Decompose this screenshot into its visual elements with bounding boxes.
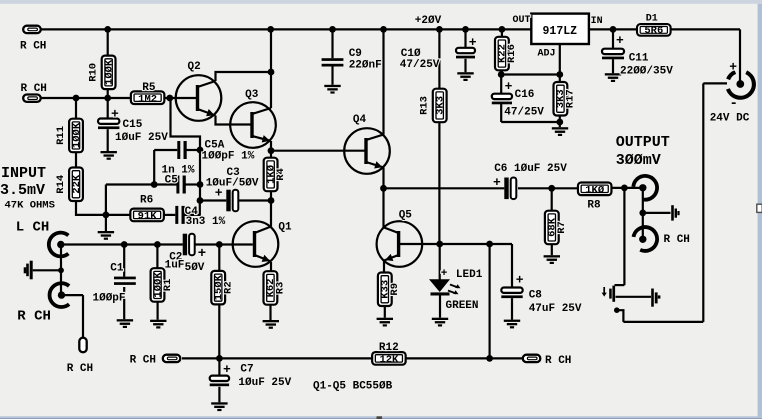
svg-text:Q5: Q5 [399,210,413,222]
svg-text:+2ØV: +2ØV [415,15,442,27]
svg-text:R6: R6 [140,195,153,207]
svg-text:47K OHMS: 47K OHMS [5,199,55,211]
svg-text:-: - [730,96,738,112]
svg-text:R3: R3 [275,282,287,295]
svg-text:+: + [516,273,524,288]
svg-text:917LZ: 917LZ [543,25,578,38]
svg-text:+: + [223,362,231,377]
svg-text:1ØuF 25V: 1ØuF 25V [115,132,168,144]
svg-text:R12: R12 [379,342,399,354]
svg-text:C9: C9 [349,48,362,60]
svg-text:1ØØpF: 1ØØpF [93,292,126,304]
svg-text:1ØØK: 1ØØK [71,122,83,148]
svg-text:+: + [493,175,501,190]
svg-text:R CH: R CH [664,234,690,246]
svg-text:5ØV: 5ØV [185,262,205,274]
svg-text:Q1-Q5 BC55ØB: Q1-Q5 BC55ØB [313,380,393,392]
svg-text:R16: R16 [506,44,518,63]
svg-text:D1: D1 [646,14,658,25]
svg-text:INPUT: INPUT [1,165,46,182]
svg-text:OUT: OUT [513,15,531,26]
svg-text:91K: 91K [138,211,158,223]
svg-text:R11: R11 [55,126,67,145]
svg-text:C16: C16 [515,89,535,101]
svg-text:R14: R14 [55,175,67,194]
svg-text:3.5mV: 3.5mV [0,182,45,199]
svg-text:LED1: LED1 [456,269,483,281]
svg-text:OUTPUT: OUTPUT [616,134,670,151]
svg-text:+: + [198,246,206,262]
svg-text:R8: R8 [587,200,601,212]
svg-text:+: + [111,107,119,122]
svg-text:47/25V: 47/25V [400,59,440,71]
svg-text:24V DC: 24V DC [710,112,750,124]
svg-text:+: + [505,79,513,94]
svg-text:C5: C5 [165,174,179,186]
svg-text:R CH: R CH [17,309,51,325]
svg-text:C15: C15 [123,119,143,131]
svg-text:Q2: Q2 [188,61,201,73]
svg-text:GREEN: GREEN [446,300,479,312]
svg-text:R9: R9 [389,283,401,296]
svg-text:R CH: R CH [545,355,571,367]
svg-text:1ØuF 25V: 1ØuF 25V [238,377,291,389]
svg-text:1ØØpF 1%: 1ØØpF 1% [202,151,255,163]
svg-text:IN: IN [591,16,603,27]
svg-text:R1: R1 [162,279,174,292]
svg-text:22ØnF: 22ØnF [349,59,382,71]
svg-text:1KØ: 1KØ [585,185,605,197]
svg-text:12K: 12K [379,354,399,366]
svg-text:47/25V: 47/25V [504,106,544,118]
svg-text:+: + [215,186,223,201]
svg-text:ADJ: ADJ [538,48,556,59]
svg-text:+: + [441,268,448,280]
svg-text:22K: 22K [71,174,83,194]
svg-text:R CH: R CH [67,363,93,375]
svg-text:+: + [616,33,624,48]
svg-text:R5: R5 [142,82,156,94]
svg-text:C8: C8 [529,290,543,302]
svg-text:R17: R17 [565,89,577,108]
svg-text:C1: C1 [110,263,124,275]
svg-text:R4: R4 [275,168,287,181]
svg-text:1M2: 1M2 [138,94,157,106]
svg-text:R7: R7 [556,221,568,234]
svg-text:R CH: R CH [130,355,156,367]
svg-text:C6 1ØuF 25V: C6 1ØuF 25V [494,163,567,175]
svg-text:Q3: Q3 [245,89,259,101]
svg-text:C11: C11 [629,53,649,65]
svg-text:1ØuF/5ØV: 1ØuF/5ØV [206,177,259,189]
svg-text:5R6: 5R6 [644,25,663,37]
svg-text:R13: R13 [419,96,431,115]
svg-text:R CH: R CH [21,83,47,95]
svg-text:3ØØmV: 3ØØmV [616,152,661,169]
svg-text:47uF 25V: 47uF 25V [529,303,582,315]
svg-text:Q4: Q4 [353,114,367,126]
svg-text:+: + [729,60,737,75]
svg-text:3n3 1%: 3n3 1% [186,216,226,228]
svg-text:1uF: 1uF [165,260,185,272]
svg-text:3K3: 3K3 [435,96,447,115]
svg-text:Q1: Q1 [278,222,292,234]
svg-text:1ØØK: 1ØØK [103,59,115,85]
svg-text:C5A: C5A [205,139,225,151]
svg-text:C1Ø: C1Ø [401,48,421,60]
svg-text:R10: R10 [88,63,100,82]
svg-text:+: + [469,35,477,50]
svg-text:22ØØ/35V: 22ØØ/35V [620,66,673,78]
svg-text:L CH: L CH [16,220,50,236]
svg-text:R2: R2 [223,281,235,294]
svg-text:R CH: R CH [20,41,46,53]
svg-text:C7: C7 [240,363,253,375]
